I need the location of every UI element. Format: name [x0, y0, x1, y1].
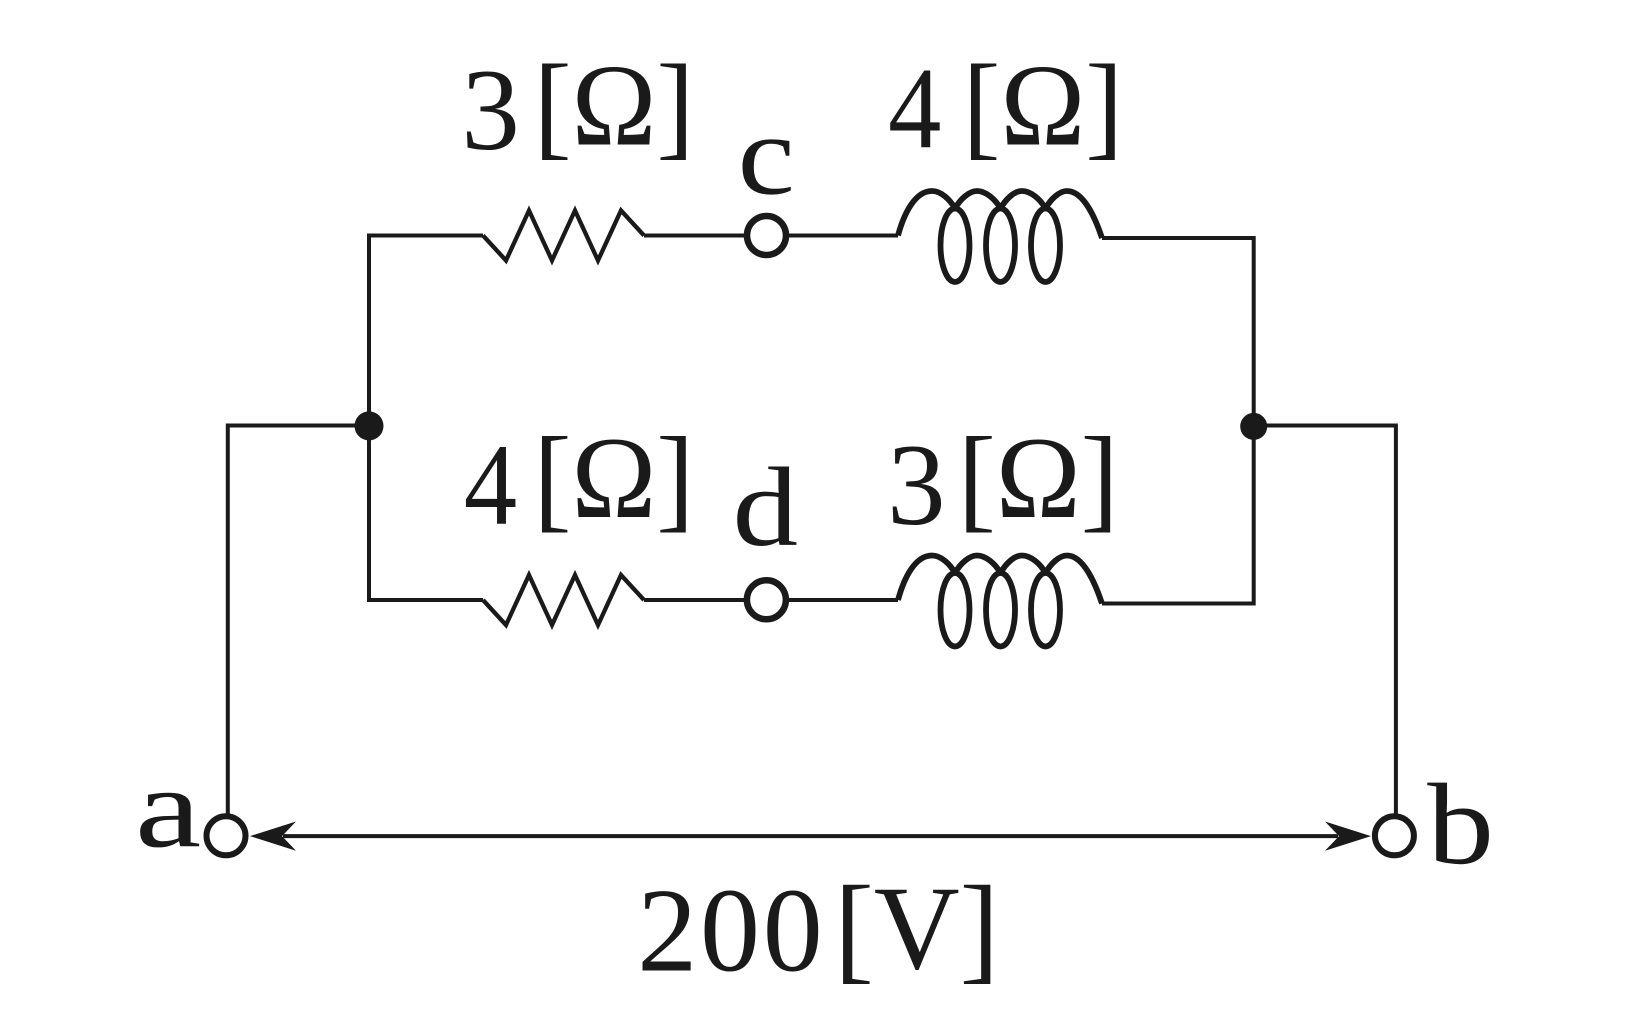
svg-text:200: 200: [637, 863, 825, 996]
svg-text:[Ω]: [Ω]: [534, 40, 695, 170]
svg-text:4: 4: [464, 420, 517, 550]
wire top middle (through node c): [644, 234, 898, 238]
wire top-right corner and inner-right vertical: [1102, 238, 1254, 604]
arrowhead right: [1325, 822, 1371, 851]
wire voltage arrow shaft: [283, 834, 1338, 838]
resistor R2 4-ohm (bottom): [483, 575, 644, 625]
svg-text:a: a: [135, 745, 201, 871]
svg-text:d: d: [733, 445, 799, 570]
svg-text:4: 4: [888, 44, 941, 174]
node d: [747, 580, 786, 619]
resistor R1 3-ohm (top): [483, 211, 644, 261]
node c: [747, 216, 786, 255]
junction dot right: [1240, 413, 1267, 440]
wire left junction to terminal a: [228, 426, 369, 816]
svg-text:c: c: [738, 92, 795, 219]
terminal a: [207, 816, 246, 855]
junction dot left: [355, 411, 384, 440]
wire right junction to terminal b: [1254, 426, 1396, 816]
svg-text:[Ω]: [Ω]: [963, 40, 1124, 170]
svg-text:[Ω]: [Ω]: [534, 413, 695, 543]
wire bottom middle (through node d): [644, 598, 898, 602]
svg-text:[V]: [V]: [834, 862, 999, 995]
svg-text:3: 3: [887, 421, 946, 550]
inductor L2 3-ohm (bottom): [898, 556, 1102, 647]
terminal b: [1375, 816, 1414, 855]
inductor L1 4-ohm (top): [898, 191, 1102, 282]
wire top-left corner and inner-left vertical: [369, 236, 483, 601]
svg-text:b: b: [1427, 761, 1494, 889]
svg-text:[Ω]: [Ω]: [958, 413, 1119, 543]
arrowhead left: [250, 822, 296, 851]
svg-text:3: 3: [461, 46, 520, 175]
